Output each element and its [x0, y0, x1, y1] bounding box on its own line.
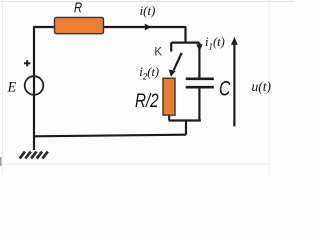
svg-text:u(t): u(t): [252, 79, 272, 94]
wire capacitor bottom lead: [198, 88, 200, 120]
wire bottom-right jumper joining R/2 and C bottoms: [169, 119, 201, 121]
wire drop from jumper to bottom return wire: [185, 121, 187, 135]
voltage arrow u(t): [231, 37, 238, 126]
wire R/2 bottom stub: [168, 115, 170, 121]
svg-text:E: E: [7, 79, 17, 95]
wire T-bar node above switch and capacitor branch: [171, 41, 199, 43]
wire from resistor R right side to top-right corner down to switch T-bar: [102, 27, 186, 43]
svg-text:R/2: R/2: [135, 90, 159, 112]
svg-text:R: R: [74, 0, 82, 16]
wire capacitor top lead: [198, 43, 200, 78]
current arrow i1(t) on capacitor branch: [196, 44, 202, 51]
wire bottom return to source: [34, 135, 186, 137]
svg-text:C: C: [219, 76, 231, 100]
voltage source E circle: [25, 76, 44, 95]
resistor R/2: [163, 78, 175, 115]
plus polarity sign: [24, 60, 30, 66]
ground: [20, 152, 48, 159]
decorative page frame lines: [0, 1, 294, 3]
switch K blade with closing arrow: [169, 53, 182, 77]
capacitor C plates: [186, 79, 214, 87]
svg-text:i(t): i(t): [140, 3, 156, 18]
wire switch fixed contact stub: [170, 43, 172, 52]
resistor R: [55, 17, 104, 33]
current arrow i(t) on top wire: [145, 24, 152, 30]
wire top-left from source up and right to resistor R: [34, 27, 56, 150]
svg-text:K: K: [154, 44, 162, 58]
